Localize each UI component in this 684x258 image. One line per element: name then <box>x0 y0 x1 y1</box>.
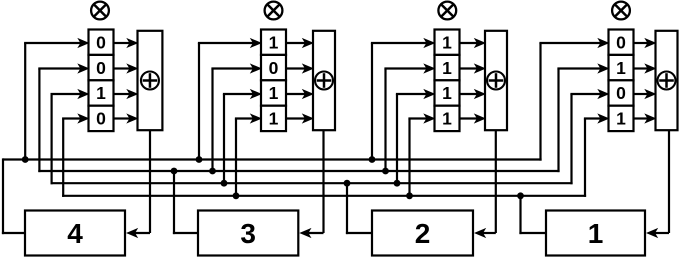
wire: tap T1.3 output arrow to U1 <box>114 89 139 99</box>
wire: register R2 output to bus 3 <box>346 183 372 234</box>
tap cell T1.2 value 0 <box>89 55 114 80</box>
wire: bus 4 riser to tap T4.4 input arrow <box>584 113 610 196</box>
XOR combiner U4 (circled plus box) <box>656 31 678 130</box>
wire: tap T4.3 output arrow to U4 <box>634 89 657 99</box>
wire: tap T3.2 output arrow to U3 <box>460 63 487 73</box>
tap cell T2.1 value 1 <box>261 30 286 55</box>
tap cell T2.3 value 1 <box>261 80 286 105</box>
svg-text:0: 0 <box>96 32 106 52</box>
wire: bus 2 riser to tap T4.2 input arrow <box>557 63 609 172</box>
XOR combiner U3 (circled plus box) <box>485 31 507 130</box>
wire: tap T4.4 output arrow to U4 <box>634 113 657 123</box>
junction dot J12 <box>517 192 524 199</box>
wire: bus 3 riser to tap T2.3 input arrow <box>223 89 262 184</box>
wire: bus 2 (register 3 output net) <box>38 170 559 172</box>
wire: bus 3 riser to tap T3.3 input arrow <box>396 89 436 184</box>
tap cell T3.2 value 1 <box>435 55 460 80</box>
junction dot J9 <box>394 180 401 187</box>
tap cell T1.4 value 0 <box>89 106 114 131</box>
wire: tap T2.4 output arrow to U2 <box>286 113 314 123</box>
register R3 <box>198 211 298 256</box>
wire: tap T2.1 output arrow to U2 <box>286 38 314 48</box>
svg-text:1: 1 <box>442 109 452 129</box>
svg-text:1: 1 <box>616 109 626 129</box>
svg-text:0: 0 <box>96 58 106 78</box>
svg-text:0: 0 <box>96 109 106 129</box>
wire: tap T1.4 output arrow to U1 <box>114 113 139 123</box>
multiplier M3 (circled times) <box>438 2 456 20</box>
wire: tap T2.3 output arrow to U2 <box>286 89 314 99</box>
multiplier M2 (circled times) <box>265 2 283 20</box>
svg-text:2: 2 <box>415 218 431 249</box>
tap cell T3.1 value 1 <box>435 30 460 55</box>
tap cell T4.3 value 0 <box>609 80 634 105</box>
tap cell T4.2 value 1 <box>609 55 634 80</box>
register R1 <box>546 211 645 256</box>
svg-text:3: 3 <box>240 218 256 249</box>
tap cell T2.2 value 0 <box>261 55 286 80</box>
tap cell T3.3 value 1 <box>435 80 460 105</box>
wire: bus 2 riser to tap T3.2 input arrow <box>384 63 435 172</box>
wire: tap T4.2 output arrow to U4 <box>634 63 657 73</box>
junction dot J7 <box>221 180 228 187</box>
svg-text:1: 1 <box>616 58 626 78</box>
svg-text:1: 1 <box>269 32 279 52</box>
wire: U3 output down into register R2 <box>474 130 496 238</box>
svg-text:1: 1 <box>269 109 279 129</box>
svg-text:1: 1 <box>442 83 452 103</box>
tap cell T4.4 value 1 <box>609 106 634 131</box>
wire: bus 1 riser to tap T2.1 input arrow <box>198 38 262 161</box>
junction dot J10 <box>233 192 240 199</box>
XOR combiner U1 (circled plus box) <box>138 31 163 130</box>
junction dot J6 <box>382 168 389 175</box>
junction dot J2 <box>196 156 203 163</box>
register R4 <box>25 211 125 256</box>
wire: bus 1 riser to tap T4.1 input arrow <box>539 38 609 161</box>
wire: tap T2.2 output arrow to U2 <box>286 63 314 73</box>
wire: tap T4.1 output arrow to U4 <box>634 38 657 48</box>
junction dot J1 <box>22 156 29 163</box>
junction dot J8 <box>344 180 351 187</box>
svg-text:4: 4 <box>67 218 83 249</box>
junction dot J5 <box>209 168 216 175</box>
wire: U4 output down into register R1 <box>646 130 669 238</box>
wire: bus 1 (register 4 output net) <box>3 158 542 160</box>
wire: tap T3.4 output arrow to U3 <box>460 113 487 123</box>
tap cell T1.3 value 1 <box>89 80 114 105</box>
wire: U2 output down into register R3 <box>299 130 323 238</box>
junction dot J3 <box>369 156 376 163</box>
svg-text:1: 1 <box>269 83 279 103</box>
wire: register R3 output to bus 2 <box>173 171 198 234</box>
wire: bus 4 (register 1 output net) <box>62 195 586 197</box>
register R2 <box>372 211 473 256</box>
XOR combiner U2 (circled plus box) <box>313 31 335 130</box>
wire: bus 3 riser to tap T4.3 input arrow <box>570 89 609 184</box>
wire: bus 3 riser to tap T1.3 input arrow <box>51 89 90 184</box>
wire: bus 3 (register 2 output net) <box>51 182 573 184</box>
junction dot J4 <box>171 168 178 175</box>
junction dot J11 <box>406 192 413 199</box>
tap cell T2.4 value 1 <box>261 106 286 131</box>
svg-text:0: 0 <box>269 58 279 78</box>
multiplier M1 (circled times) <box>91 2 109 20</box>
wire: register R4 output to bus 1 <box>2 158 25 234</box>
wire: tap T1.2 output arrow to U1 <box>114 63 139 73</box>
wire: bus 1 riser to tap T1.1 input arrow <box>24 38 89 161</box>
wire: bus 2 riser to tap T2.2 input arrow <box>211 63 262 172</box>
wire: bus 4 riser to tap T1.4 input arrow <box>62 113 89 196</box>
tap cell T4.1 value 0 <box>609 30 634 55</box>
svg-text:1: 1 <box>588 218 604 249</box>
wire: tap T1.1 output arrow to U1 <box>114 38 139 48</box>
wire: tap T3.1 output arrow to U3 <box>460 38 487 48</box>
svg-text:1: 1 <box>96 83 106 103</box>
svg-text:1: 1 <box>442 32 452 52</box>
multiplier M4 (circled times) <box>612 2 630 20</box>
svg-text:0: 0 <box>616 83 626 103</box>
svg-text:1: 1 <box>442 58 452 78</box>
wire: bus 2 riser to tap T1.2 input arrow <box>38 63 89 172</box>
wire: register R1 output to bus 4 <box>519 196 546 234</box>
tap cell T3.4 value 1 <box>435 106 460 131</box>
tap cell T1.1 value 0 <box>89 30 114 55</box>
wire: tap T3.3 output arrow to U3 <box>460 89 487 99</box>
wire: U1 output down into register R4 <box>126 130 150 238</box>
wire: bus 4 riser to tap T3.4 input arrow <box>408 113 435 196</box>
wire: bus 4 riser to tap T2.4 input arrow <box>235 113 262 196</box>
wire: bus 1 riser to tap T3.1 input arrow <box>371 38 436 161</box>
svg-text:0: 0 <box>616 32 626 52</box>
